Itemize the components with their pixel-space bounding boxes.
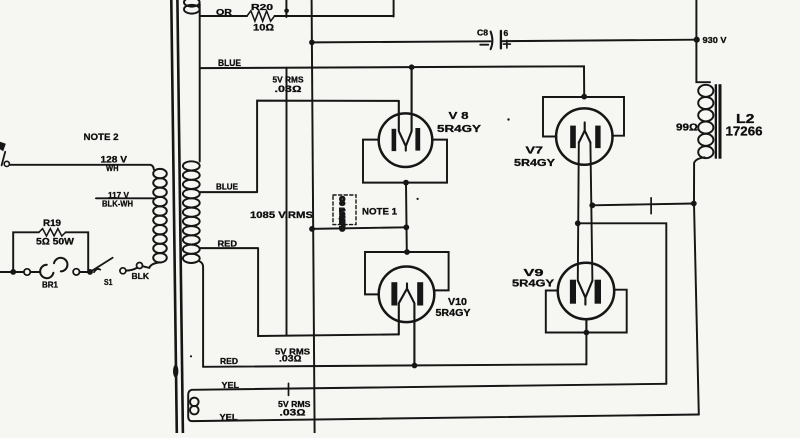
tube V7 plate box xyxy=(543,97,624,137)
wire R20 to top edge riser xyxy=(275,0,394,17)
svg-text:NOTE 1: NOTE 1 xyxy=(362,207,398,218)
tube V10 circle xyxy=(379,267,435,323)
speck near transformer xyxy=(190,355,192,357)
wire 5V top tap riser and run xyxy=(200,101,399,193)
svg-text:17266: 17266 xyxy=(726,125,763,139)
terminal circle at 128V wire start xyxy=(4,161,9,166)
svg-text:6: 6 xyxy=(504,28,509,38)
transformer T1 core xyxy=(171,0,177,433)
svg-text:RED: RED xyxy=(218,238,238,248)
svg-text:R20: R20 xyxy=(251,2,273,12)
svg-text:BLK-WH: BLK-WH xyxy=(102,198,133,208)
tube V9 plate box xyxy=(546,290,627,333)
terminal circle BLK connector xyxy=(137,263,143,269)
tube V10 plates xyxy=(391,282,397,305)
wire vertical A upper segment xyxy=(285,0,287,17)
resistor R19 loop xyxy=(13,232,88,272)
wire V9 cathode drop to RED wire xyxy=(585,333,587,365)
wire 128V lead xyxy=(10,165,154,170)
wire L2 bottom lead down to junction xyxy=(694,157,705,203)
wire OR tap horizontal xyxy=(200,15,247,17)
node stray dot above R20 wire xyxy=(284,9,289,14)
svg-text:5R4GY: 5R4GY xyxy=(514,157,555,169)
tube V7 circle xyxy=(556,108,612,164)
tick mark crossing YEL top wire xyxy=(288,383,290,395)
tube V10 plate box xyxy=(365,252,449,294)
capacitor C8 xyxy=(480,31,510,49)
svg-text:5V RMS: 5V RMS xyxy=(273,75,304,85)
speck near V8 label xyxy=(507,118,509,120)
svg-text:930 V: 930 V xyxy=(703,35,727,45)
inductor L2 core bars xyxy=(715,84,717,159)
svg-text:V10: V10 xyxy=(448,297,467,308)
switch S1 blade xyxy=(92,258,113,273)
svg-text:YEL: YEL xyxy=(222,380,240,390)
node dot RED wire / V10 filament xyxy=(412,363,418,369)
wire primary bottom lead xyxy=(143,262,160,268)
wire RED bottom xyxy=(203,364,586,367)
wire y223 from V7 left filament right then down xyxy=(578,223,667,383)
transformer HV secondary winding xyxy=(183,161,200,263)
tube V8 circle xyxy=(379,113,433,167)
svg-text:V 8: V 8 xyxy=(449,110,469,122)
tick mark crossing bus y205 xyxy=(650,198,652,214)
inductor L2 coil xyxy=(698,85,713,158)
ink blotch on core xyxy=(173,365,178,378)
node dot V9 box bottom xyxy=(584,330,590,336)
svg-text:YEL: YEL xyxy=(220,412,238,422)
wire y227 crossover from B xyxy=(312,227,406,229)
svg-text:.03Ω: .03Ω xyxy=(280,407,306,417)
transformer secondary spine top xyxy=(199,4,201,162)
tube V8 filament funnel xyxy=(399,67,412,150)
svg-text:BR1: BR1 xyxy=(42,279,58,289)
node dot V7 box top xyxy=(581,94,587,100)
terminal circle S1 right xyxy=(120,268,126,274)
tube V8 plate box xyxy=(363,140,447,183)
wire plate bus y205 (V7 right filament to L2 node) xyxy=(592,204,694,206)
svg-text:OR: OR xyxy=(216,7,232,17)
node junction at L2 bottom xyxy=(691,201,697,207)
svg-text:S1: S1 xyxy=(104,277,113,287)
wire connector link xyxy=(126,268,137,271)
node dot V8 box bottom xyxy=(403,180,409,186)
svg-text:1085 V.RMS: 1085 V.RMS xyxy=(250,210,313,221)
svg-text:NOTE 2: NOTE 2 xyxy=(84,132,119,143)
svg-text:5R4GY: 5R4GY xyxy=(436,308,471,319)
wire main vertical B full height xyxy=(312,0,315,433)
wire 117V tap xyxy=(96,197,154,199)
switch S2 blade at left edge xyxy=(0,142,6,151)
speck near V8 box xyxy=(417,198,419,200)
tube V8 plates xyxy=(392,129,397,151)
node dot on V7 right filament wire xyxy=(589,202,595,208)
svg-text:99Ω: 99Ω xyxy=(676,123,698,134)
tube V9 plates xyxy=(570,280,576,304)
svg-text:.03Ω: .03Ω xyxy=(275,84,302,94)
wire L2 junction down to YEL bottom corner xyxy=(694,204,699,415)
resistor R20 xyxy=(247,11,275,21)
svg-text:BLUE: BLUE xyxy=(218,58,241,68)
wire B to C8 xyxy=(312,41,491,42)
wire V7 filaments down to V9 xyxy=(578,143,593,281)
wire right vertical from top edge through 930V down to L2 xyxy=(696,0,710,82)
transformer 5V bottom winding loops xyxy=(190,398,199,407)
resistor R19 zigzag xyxy=(39,229,66,236)
svg-text:BLUE: BLUE xyxy=(216,182,238,192)
svg-text:R19: R19 xyxy=(43,218,61,228)
wire V8 box to V10 box xyxy=(405,183,408,252)
transformer primary winding xyxy=(153,169,167,263)
node dot on B at y229 xyxy=(309,226,315,232)
wire lower-left main xyxy=(0,271,90,273)
transformer secondary top winding curl xyxy=(184,0,200,14)
tube V7 filament funnel xyxy=(579,122,591,142)
svg-text:10Ω: 10Ω xyxy=(253,23,274,34)
breaker BR1 hooks xyxy=(40,265,53,278)
terminal circle left xyxy=(24,269,30,275)
svg-text:5Ω 50W: 5Ω 50W xyxy=(36,237,74,248)
wire vertical A lower segment (to 5V winding wire) xyxy=(286,68,288,336)
svg-text:5R4GY: 5R4GY xyxy=(437,123,481,135)
node dot left of R19 loop xyxy=(10,269,16,275)
svg-text:RED: RED xyxy=(220,356,238,366)
node dot V10 box top xyxy=(404,249,410,255)
tube V9 circle xyxy=(558,263,614,319)
svg-text:C9 16MFD: C9 16MFD xyxy=(338,197,345,232)
tube V7 plates xyxy=(570,126,576,149)
terminal circle right of BR1 xyxy=(73,269,79,275)
node dot at R19 loop right xyxy=(87,269,93,275)
wire RED mid tap riser and run xyxy=(200,248,399,336)
svg-text:5R4GY: 5R4GY xyxy=(512,277,554,289)
svg-text:WH: WH xyxy=(106,163,119,173)
svg-text:V7: V7 xyxy=(526,145,544,157)
node junction dot on B at C8 wire xyxy=(309,40,315,46)
node 930V junction xyxy=(694,37,700,43)
tube V10 filament funnel xyxy=(399,283,415,365)
node dot on V7 left filament wire xyxy=(575,220,581,226)
svg-text:C8: C8 xyxy=(477,28,488,38)
wire winding bottom riser to RED wire xyxy=(200,262,203,367)
tube V9 filament funnel xyxy=(578,281,593,333)
capacitor C9 dashed note box xyxy=(333,195,356,225)
wire C8 to 930V node xyxy=(501,40,697,42)
svg-text:BLK: BLK xyxy=(132,271,150,281)
wire BLUE top xyxy=(200,66,584,96)
svg-text:.03Ω: .03Ω xyxy=(279,354,302,364)
node dot at y227 junction xyxy=(403,224,409,230)
wire YEL top xyxy=(188,384,699,421)
node dot BLUE/V8 filament xyxy=(409,64,415,70)
